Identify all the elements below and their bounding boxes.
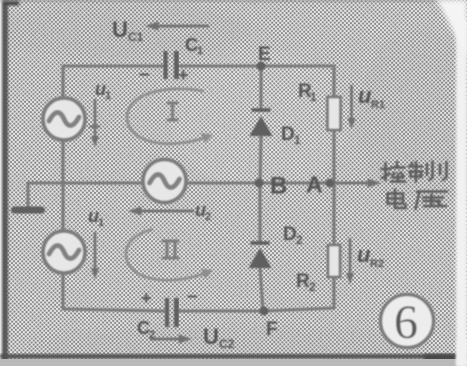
svg-text:1: 1	[105, 90, 111, 102]
svg-text:1: 1	[310, 90, 317, 104]
svg-text:1: 1	[197, 45, 203, 57]
svg-text:1: 1	[98, 217, 104, 229]
svg-text:u: u	[358, 83, 372, 108]
svg-text:R2: R2	[370, 258, 384, 270]
svg-text:u: u	[357, 242, 371, 267]
svg-text:–: –	[187, 286, 198, 307]
svg-text:+: +	[178, 65, 189, 85]
svg-text:C1: C1	[128, 30, 144, 44]
svg-text:2: 2	[149, 329, 155, 341]
svg-text:+: +	[141, 288, 152, 308]
svg-text:C2: C2	[219, 337, 235, 351]
svg-text:F: F	[266, 319, 278, 340]
svg-text:6: 6	[394, 296, 418, 349]
svg-text:B: B	[270, 173, 287, 200]
svg-text:2: 2	[205, 211, 211, 223]
svg-text:A: A	[306, 172, 323, 198]
svg-text:D: D	[281, 124, 295, 145]
svg-text:E: E	[258, 44, 271, 65]
svg-text:U: U	[203, 324, 219, 349]
svg-text:2: 2	[309, 280, 316, 294]
svg-text:1: 1	[294, 133, 301, 147]
svg-text:2: 2	[296, 233, 303, 247]
svg-text:–: –	[139, 64, 150, 85]
svg-text:D: D	[283, 224, 297, 245]
svg-text:R1: R1	[371, 99, 385, 111]
svg-text:R: R	[296, 271, 310, 292]
svg-text:U: U	[112, 17, 128, 42]
